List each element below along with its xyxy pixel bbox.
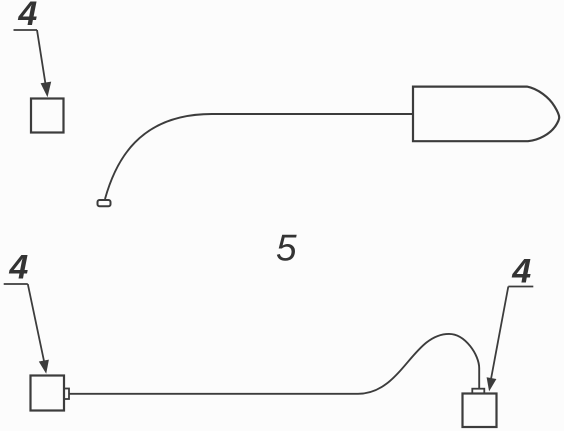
- leader line: [28, 284, 44, 361]
- label 4 (top-left detector): [14, 0, 52, 97]
- arrowhead: [41, 82, 52, 98]
- detector square (top-left): [31, 99, 64, 133]
- label 4 (bottom-right detector): [487, 252, 534, 391]
- svg-text:4: 4: [511, 252, 531, 290]
- arrowhead: [487, 377, 497, 391]
- detector square (bottom-left): [31, 376, 65, 411]
- leader underline: [508, 286, 533, 288]
- leader underline: [14, 29, 38, 31]
- svg-text:5: 5: [276, 228, 297, 269]
- svg-text:4: 4: [8, 248, 28, 286]
- arrowhead: [39, 360, 49, 374]
- detector square (bottom-right): [463, 394, 497, 428]
- leader line: [491, 287, 508, 380]
- connector nub (bottom-right square): [472, 389, 484, 394]
- connector tip of top cable: [98, 200, 111, 206]
- leader line: [37, 30, 46, 84]
- top cable: [105, 114, 413, 199]
- capsule probe body: [413, 87, 559, 142]
- label 4 (bottom-left detector): [4, 248, 49, 373]
- svg-text:4: 4: [17, 0, 37, 33]
- connector nub (bottom-left square): [64, 389, 69, 400]
- bottom cable: [69, 334, 479, 394]
- leader underline: [4, 283, 28, 285]
